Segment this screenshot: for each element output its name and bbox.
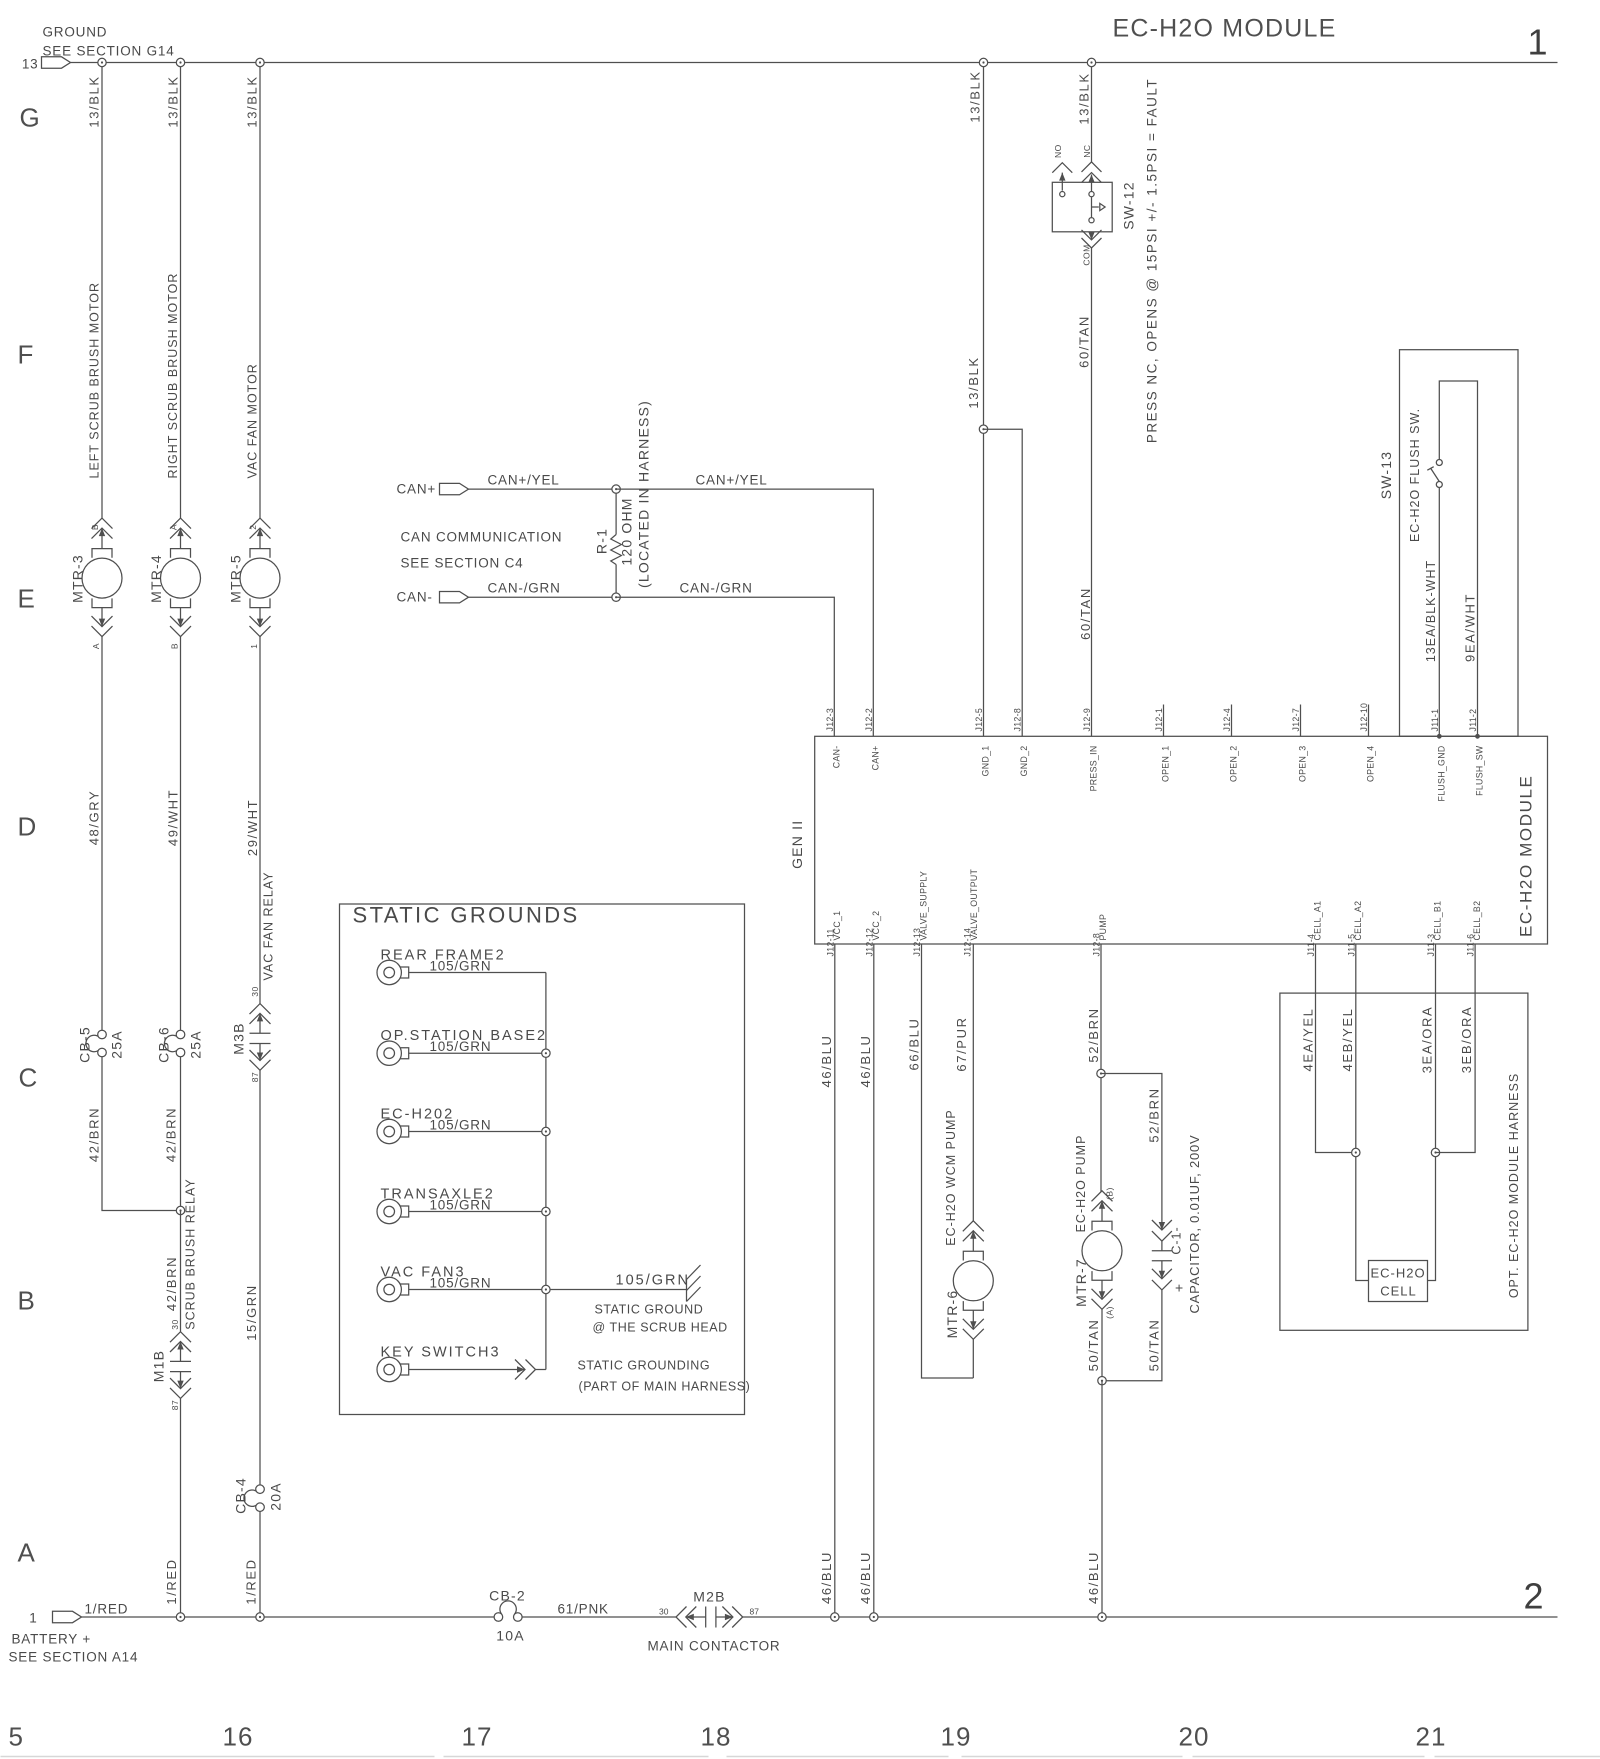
relay contact M3B vac fan relay: [250, 1004, 271, 1071]
svg-text:25A: 25A: [188, 1030, 204, 1059]
svg-text:SW-13: SW-13: [1378, 451, 1394, 500]
svg-text:2: 2: [1524, 1576, 1544, 1617]
svg-text:SW-12: SW-12: [1121, 181, 1137, 230]
svg-text:1: 1: [249, 643, 259, 648]
pin J12-12 VCC_2: [864, 911, 881, 957]
wire 67/PUR J12-14 to MTR-6: [972, 944, 974, 1221]
svg-text:CELL_B1: CELL_B1: [1433, 901, 1443, 941]
svg-text:13EA/BLK-WHT: 13EA/BLK-WHT: [1424, 560, 1438, 662]
svg-text:5: 5: [9, 1722, 24, 1752]
connector CAN+: [440, 483, 469, 494]
svg-text:R-1: R-1: [594, 528, 610, 554]
label STATIC GROUND @ THE SCRUB HEAD: [593, 1303, 728, 1335]
wire 15/GRN M3B to CB-4: [259, 1070, 261, 1484]
svg-text:67/PUR: 67/PUR: [954, 1016, 969, 1071]
wire 42/BRN CB-6 to junction: [180, 1057, 182, 1211]
svg-text:61/PNK: 61/PNK: [558, 1602, 609, 1617]
svg-text:EC-H2O PUMP: EC-H2O PUMP: [1074, 1135, 1088, 1233]
svg-text:87: 87: [750, 1607, 760, 1617]
junction capacitor branch top: [1097, 1069, 1105, 1077]
wire 4EA/YEL J11-4: [1316, 944, 1356, 1153]
svg-text:STATIC GROUNDING: STATIC GROUNDING: [578, 1359, 711, 1373]
junction capacitor branch bottom: [1098, 1377, 1106, 1385]
svg-text:J11-1: J11-1: [1430, 709, 1440, 732]
connector 1 battery feed: [29, 1611, 81, 1626]
svg-text:13/BLK: 13/BLK: [245, 75, 260, 127]
svg-text:NO: NO: [1053, 144, 1063, 158]
ring terminal KEY SWITCH3: [377, 1357, 409, 1381]
svg-text:J12-9: J12-9: [1082, 708, 1092, 732]
wire 105/GRN: [409, 1211, 546, 1213]
svg-text:SEE SECTION G14: SEE SECTION G14: [43, 44, 175, 59]
svg-text:3EA/ORA: 3EA/ORA: [1420, 1006, 1435, 1074]
junction top rail 13/BLK SW-12: [1087, 58, 1095, 66]
wire 105/GRN to static ground: [409, 1289, 687, 1291]
svg-text:@ THE SCRUB HEAD: @ THE SCRUB HEAD: [593, 1321, 728, 1335]
connector CAN-: [440, 592, 469, 603]
wire 13/BLK to MTR-4: [180, 63, 182, 519]
wire CAN+/YEL R-1 to J12-2: [616, 489, 873, 736]
junction R-1 bottom: [612, 593, 620, 601]
svg-text:A: A: [169, 524, 179, 530]
svg-text:9EA/WHT: 9EA/WHT: [1462, 593, 1477, 662]
relay contact M1B scrub brush relay: [170, 1332, 191, 1399]
svg-text:COM: COM: [1082, 244, 1092, 265]
motor MTR-3 left scrub brush: [82, 518, 122, 649]
junction bus VAC FAN3: [542, 1285, 550, 1293]
svg-text:OPEN_2: OPEN_2: [1229, 746, 1239, 783]
pin J12-3 CAN-: [825, 708, 842, 768]
ring terminal TRANSAXLE2: [377, 1199, 409, 1223]
svg-text:J12-8: J12-8: [1013, 708, 1023, 732]
svg-text:CB-6: CB-6: [156, 1026, 172, 1063]
svg-text:MTR-5: MTR-5: [228, 554, 244, 603]
pin J12-14 VALVE_OUTPUT: [963, 868, 980, 956]
svg-text:66/BLU: 66/BLU: [906, 1018, 921, 1071]
svg-text:13/BLK: 13/BLK: [87, 75, 102, 127]
wire CAN-/GRN to R-1: [469, 596, 617, 598]
wire MTR-7 to junction: [1101, 1309, 1103, 1381]
svg-text:CB-5: CB-5: [77, 1026, 93, 1063]
resistor R-1 120 OHM: [611, 489, 622, 597]
svg-text:2: 2: [248, 524, 258, 529]
svg-text:J12-3: J12-3: [825, 708, 835, 732]
svg-text:(PART OF MAIN HARNESS): (PART OF MAIN HARNESS): [579, 1380, 751, 1394]
pin J12-10 OPEN_4: [1359, 703, 1376, 782]
motor MTR-6 EC-H2O WCM pump: [953, 1221, 993, 1340]
switch box SW-13: [1400, 350, 1519, 737]
junction R-1 top: [612, 485, 620, 493]
pin J12-1 OPEN_1: [1154, 705, 1171, 783]
svg-text:50/TAN: 50/TAN: [1086, 1319, 1101, 1372]
svg-text:13/BLK: 13/BLK: [968, 70, 983, 122]
svg-text:GND_1: GND_1: [981, 746, 991, 777]
junction top rail MTR-4: [176, 58, 184, 66]
svg-text:M2B: M2B: [693, 1589, 725, 1605]
svg-text:30: 30: [170, 1319, 180, 1329]
ring terminal VAC FAN3: [377, 1277, 409, 1301]
svg-text:J12-4: J12-4: [1222, 708, 1232, 732]
svg-text:30: 30: [250, 986, 260, 996]
junction battery rail M1B: [176, 1613, 184, 1621]
svg-text:E: E: [18, 584, 36, 614]
wire 1/RED CB-4 to battery rail: [259, 1512, 261, 1617]
svg-text:J11-2: J11-2: [1468, 709, 1478, 732]
wire 66/BLU J12-13 valve supply: [922, 944, 974, 1378]
junction top rail 13/BLK: [979, 58, 987, 66]
wire 46/BLU J12-11 to battery rail: [834, 944, 836, 1617]
svg-text:C: C: [19, 1063, 39, 1093]
junction pin J11-2: [1475, 734, 1480, 739]
pin J12-8 PUMP: [1092, 914, 1109, 957]
wire 42/BRN CB-5 to merge: [102, 1057, 181, 1211]
svg-text:(A): (A): [1104, 1306, 1114, 1319]
svg-text:16: 16: [223, 1722, 254, 1752]
svg-text:J12-10: J12-10: [1359, 703, 1369, 732]
svg-text:J12-2: J12-2: [864, 708, 874, 732]
svg-text:50/TAN: 50/TAN: [1147, 1319, 1162, 1372]
svg-text:13/BLK: 13/BLK: [1077, 72, 1092, 124]
junction battery rail J12-12: [870, 1613, 878, 1621]
svg-text:GND_2: GND_2: [1019, 746, 1029, 777]
svg-text:CELL: CELL: [1380, 1284, 1417, 1299]
svg-text:G: G: [20, 103, 41, 133]
svg-text:FLUSH_GND: FLUSH_GND: [1436, 746, 1446, 802]
pin J12-8 GND_2: [1013, 708, 1029, 776]
svg-text:C-1-: C-1-: [1170, 1226, 1184, 1254]
svg-text:LEFT SCRUB BRUSH MOTOR: LEFT SCRUB BRUSH MOTOR: [88, 282, 102, 479]
svg-text:46/BLU: 46/BLU: [819, 1551, 834, 1604]
wire CAN-/GRN R-1 to J12-3: [616, 597, 834, 736]
wire battery rail 1/RED: [82, 1616, 495, 1618]
pin J12-4 OPEN_2: [1222, 705, 1239, 783]
wire 52/BRN J12-8 pump to MTR-7: [1100, 944, 1102, 1192]
label GROUND / SEE SECTION G14: [43, 25, 175, 59]
svg-text:D: D: [18, 812, 38, 842]
wire 60/TAN SW-12 COM to J12-9: [1091, 248, 1093, 736]
junction pin J11-1: [1437, 734, 1442, 739]
pin J11-1 FLUSH_GND: [1430, 709, 1447, 802]
svg-text:4EB/YEL: 4EB/YEL: [1340, 1008, 1355, 1072]
svg-text:VAC FAN RELAY: VAC FAN RELAY: [262, 871, 276, 980]
svg-text:29/WHT: 29/WHT: [245, 799, 260, 856]
svg-text:60/TAN: 60/TAN: [1077, 315, 1092, 368]
motor MTR-7 EC-H2O pump: [1082, 1191, 1122, 1310]
svg-text:GEN II: GEN II: [789, 820, 805, 869]
label BATTERY + / SEE SECTION A14: [9, 1632, 139, 1665]
wire battery rail M2B to right end: [743, 1616, 1558, 1618]
svg-text:MAIN CONTACTOR: MAIN CONTACTOR: [648, 1639, 781, 1654]
svg-text:BATTERY +: BATTERY +: [12, 1632, 92, 1647]
ring terminal OP.STATION BASE2: [377, 1041, 409, 1065]
harness box OPT. EC-H2O MODULE HARNESS: [1280, 993, 1528, 1330]
svg-text:B: B: [170, 643, 180, 649]
pin J11-4 CELL_A1: [1306, 901, 1323, 957]
svg-text:105/GRN: 105/GRN: [430, 1118, 492, 1133]
svg-text:30: 30: [659, 1607, 669, 1617]
svg-text:STATIC GROUNDS: STATIC GROUNDS: [353, 903, 580, 928]
svg-text:42/BRN: 42/BRN: [164, 1256, 179, 1311]
wire 13EA/BLK-WHT to J11-1: [1438, 488, 1440, 737]
ground chassis static ground: [687, 1265, 701, 1302]
pin J11-6 CELL_B2: [1466, 901, 1483, 957]
svg-text:EC-H2O: EC-H2O: [1370, 1266, 1425, 1281]
ring terminal EC-H202: [377, 1119, 409, 1143]
svg-text:46/BLU: 46/BLU: [858, 1551, 873, 1604]
svg-text:13/BLK: 13/BLK: [966, 356, 981, 408]
wire top ground rail 13/BLK: [71, 62, 1558, 64]
svg-text:CAPACITOR, 0.01UF, 200V: CAPACITOR, 0.01UF, 200V: [1187, 1134, 1202, 1313]
svg-text:MTR-3: MTR-3: [70, 554, 86, 603]
svg-text:1/RED: 1/RED: [164, 1558, 179, 1604]
junction cell A: [1352, 1148, 1360, 1156]
svg-text:SEE SECTION A14: SEE SECTION A14: [9, 1650, 139, 1665]
svg-text:3EB/ORA: 3EB/ORA: [1459, 1006, 1474, 1074]
wire 3EA/ORA J11-3 to cell: [1428, 944, 1436, 1281]
svg-text:VAC FAN MOTOR: VAC FAN MOTOR: [246, 363, 260, 478]
svg-text:(B): (B): [1104, 1187, 1114, 1200]
wire 13/BLK rail to GND_1 junction: [983, 63, 985, 737]
wire 46/BLU J12-12 to battery rail: [873, 944, 875, 1617]
contactor M2B main contactor: [676, 1607, 743, 1628]
svg-text:1: 1: [1528, 22, 1548, 63]
svg-text:OPEN_4: OPEN_4: [1366, 746, 1376, 783]
svg-text:18: 18: [701, 1722, 732, 1752]
svg-text:CAN-: CAN-: [831, 746, 841, 769]
svg-text:F: F: [18, 340, 35, 370]
svg-text:MTR-4: MTR-4: [148, 554, 164, 603]
wire 13/BLK to MTR-3: [101, 63, 103, 519]
pin J11-5 CELL_A2: [1346, 901, 1363, 957]
svg-text:20: 20: [1179, 1722, 1210, 1752]
junction bus OP.STATION BASE2: [542, 1049, 550, 1057]
svg-text:MTR-7: MTR-7: [1073, 1258, 1089, 1307]
static grounds box: [340, 904, 745, 1415]
svg-text:120 OHM: 120 OHM: [619, 497, 635, 565]
svg-text:13: 13: [22, 57, 39, 72]
junction battery rail CB-4: [256, 1613, 264, 1621]
svg-text:21: 21: [1416, 1722, 1447, 1752]
svg-text:87: 87: [250, 1072, 260, 1082]
wire 3EB/ORA J11-6: [1436, 944, 1476, 1153]
ring terminal REAR FRAME2: [377, 960, 409, 984]
svg-text:J12-5: J12-5: [974, 708, 984, 732]
label STATIC GROUNDING (PART OF MAIN HARNESS): [578, 1359, 751, 1394]
svg-text:CAN COMMUNICATION: CAN COMMUNICATION: [401, 530, 563, 545]
svg-text:MTR-6: MTR-6: [944, 1290, 960, 1339]
svg-text:49/WHT: 49/WHT: [166, 789, 181, 846]
svg-text:CAN+/YEL: CAN+/YEL: [488, 473, 560, 488]
junction top rail MTR-3: [98, 58, 106, 66]
svg-text:87: 87: [170, 1400, 180, 1410]
wire C-1 to junction: [1102, 1290, 1162, 1381]
junction battery rail pump: [1098, 1613, 1106, 1621]
wire 13/BLK to MTR-5: [259, 63, 261, 519]
wire 42/BRN junction to M1B: [180, 1211, 182, 1332]
svg-text:52/BRN: 52/BRN: [1147, 1087, 1162, 1142]
svg-text:15/GRN: 15/GRN: [244, 1284, 259, 1341]
svg-text:A: A: [91, 643, 101, 649]
wire 105/GRN: [409, 972, 546, 974]
wire key switch to bus with connector: [409, 1360, 546, 1380]
svg-text:CAN+/YEL: CAN+/YEL: [696, 473, 768, 488]
svg-text:42/BRN: 42/BRN: [87, 1107, 102, 1162]
svg-text:VALVE_OUTPUT: VALVE_OUTPUT: [969, 868, 979, 940]
svg-text:25A: 25A: [109, 1030, 125, 1059]
pin J12-7 OPEN_3: [1291, 705, 1308, 783]
svg-text:EC-H2O MODULE: EC-H2O MODULE: [1113, 15, 1337, 43]
circuit breaker CB-6 25A: [164, 1030, 184, 1057]
svg-text:CELL_A2: CELL_A2: [1353, 901, 1363, 941]
svg-text:46/BLU: 46/BLU: [819, 1035, 834, 1088]
pin J12-5 GND_1: [974, 708, 991, 776]
svg-text:OPEN_3: OPEN_3: [1298, 746, 1308, 783]
svg-text:60/TAN: 60/TAN: [1078, 587, 1093, 640]
wire 52/BRN branch to C-1: [1101, 1074, 1162, 1231]
svg-text:4EA/YEL: 4EA/YEL: [1301, 1008, 1316, 1072]
svg-text:FLUSH_SW: FLUSH_SW: [1475, 745, 1485, 796]
svg-text:NC: NC: [1082, 144, 1092, 157]
svg-text:EC-H2O MODULE: EC-H2O MODULE: [1517, 775, 1536, 938]
svg-text:42/BRN: 42/BRN: [164, 1107, 179, 1162]
pin J12-11 VCC_1: [825, 911, 842, 957]
svg-text:13/BLK: 13/BLK: [166, 75, 181, 127]
connector 13 ground feed: [22, 57, 71, 72]
svg-text:RIGHT SCRUB BRUSH MOTOR: RIGHT SCRUB BRUSH MOTOR: [166, 273, 180, 479]
svg-text:J12-7: J12-7: [1291, 708, 1301, 732]
junction bus TRANSAXLE2: [542, 1207, 550, 1215]
svg-text:20A: 20A: [268, 1482, 284, 1511]
svg-text:OPEN_1: OPEN_1: [1161, 746, 1171, 783]
svg-text:SCRUB BRUSH RELAY: SCRUB BRUSH RELAY: [184, 1178, 198, 1330]
switch SW-13 contacts: [1427, 460, 1442, 488]
svg-text:CELL_B2: CELL_B2: [1472, 901, 1482, 941]
wire 61/PNK CB-2 to M2B: [522, 1616, 676, 1618]
svg-text:EC-H2O FLUSH SW.: EC-H2O FLUSH SW.: [1408, 408, 1422, 542]
wire 29/WHT MTR-5 to M3B: [259, 637, 261, 1004]
circuit breaker CB-4 20A: [244, 1485, 264, 1512]
svg-text:105/GRN: 105/GRN: [430, 1276, 492, 1291]
svg-text:CB-2: CB-2: [489, 1588, 526, 1604]
wire 13/BLK branch to J12-8 GND_2: [984, 429, 1023, 736]
wire SW-13 loop: [1439, 381, 1477, 736]
wire 48/GRY MTR-3 to CB-5: [101, 637, 103, 1032]
svg-text:52/BRN: 52/BRN: [1086, 1007, 1101, 1062]
wire 105/GRN: [409, 1052, 546, 1054]
svg-text:105/GRN: 105/GRN: [430, 1198, 492, 1213]
capacitor C-1 0.01UF 200V: [1152, 1220, 1172, 1290]
pin J12-13 VALVE_SUPPLY: [912, 871, 929, 957]
svg-text:CELL_A1: CELL_A1: [1313, 901, 1323, 941]
svg-text:J12-1: J12-1: [1154, 708, 1164, 732]
circuit breaker CB-5 25A: [86, 1030, 106, 1057]
svg-text:VCC_2: VCC_2: [871, 911, 881, 941]
svg-text:1/RED: 1/RED: [244, 1558, 259, 1604]
pressure switch SW-12: [1052, 162, 1112, 248]
svg-text:B: B: [18, 1286, 36, 1316]
junction cell B: [1431, 1148, 1439, 1156]
svg-text:PRESS_IN: PRESS_IN: [1089, 746, 1099, 792]
wire 1/RED M1B to battery rail: [180, 1398, 182, 1617]
wire 49/WHT MTR-4 to CB-6: [180, 637, 182, 1032]
pin J11-3 CELL_B1: [1426, 901, 1443, 957]
svg-text:EC-H2O WCM PUMP: EC-H2O WCM PUMP: [944, 1109, 958, 1246]
svg-text:B: B: [90, 524, 100, 530]
svg-text:1: 1: [29, 1611, 37, 1626]
circuit breaker CB-2 10A: [494, 1601, 522, 1621]
pin J11-2 FLUSH_SW: [1468, 709, 1485, 796]
svg-text:M3B: M3B: [231, 1022, 247, 1054]
svg-text:(LOCATED IN HARNESS): (LOCATED IN HARNESS): [636, 400, 652, 588]
wire 46/BLU MTR-7 to battery rail: [1101, 1381, 1103, 1617]
svg-text:GROUND: GROUND: [43, 25, 108, 40]
svg-text:CAN+: CAN+: [870, 746, 880, 771]
wire static ground bus: [545, 973, 547, 1370]
wire 105/GRN: [409, 1131, 546, 1133]
svg-text:VCC_1: VCC_1: [832, 911, 842, 941]
svg-text:105/GRN: 105/GRN: [430, 959, 492, 974]
svg-text:CAN-: CAN-: [397, 590, 433, 605]
junction 42/BRN merge: [176, 1206, 184, 1214]
pin J12-2 CAN+: [864, 708, 881, 770]
svg-text:VALVE_SUPPLY: VALVE_SUPPLY: [919, 871, 929, 941]
svg-text:46/BLU: 46/BLU: [858, 1035, 873, 1088]
svg-text:CB-4: CB-4: [233, 1477, 249, 1514]
svg-text:PUMP: PUMP: [1098, 914, 1108, 941]
svg-text:105/GRN: 105/GRN: [430, 1039, 492, 1054]
wire MTR-6 to valve supply loop: [972, 1339, 974, 1378]
svg-text:SEE SECTION C4: SEE SECTION C4: [401, 556, 524, 571]
wire 4EB/YEL J11-5 to cell: [1356, 944, 1369, 1281]
svg-text:M1B: M1B: [151, 1350, 167, 1382]
wire CAN+/YEL to R-1: [469, 488, 617, 490]
motor MTR-4 right scrub brush: [161, 518, 201, 649]
motor MTR-5 vac fan: [240, 518, 280, 649]
svg-text:48/GRY: 48/GRY: [87, 790, 102, 846]
junction 13/BLK branch: [979, 425, 987, 433]
svg-text:CAN+: CAN+: [397, 482, 437, 497]
svg-text:KEY SWITCH3: KEY SWITCH3: [381, 1345, 501, 1361]
svg-text:OPT. EC-H2O MODULE HARNESS: OPT. EC-H2O MODULE HARNESS: [1507, 1073, 1521, 1298]
bottom border line: [1, 1756, 1600, 1758]
junction top rail MTR-5: [256, 58, 264, 66]
junction bus EC-H202: [542, 1127, 550, 1135]
svg-text:46/BLU: 46/BLU: [1086, 1551, 1101, 1604]
svg-text:17: 17: [462, 1722, 493, 1752]
svg-text:STATIC GROUND: STATIC GROUND: [595, 1303, 704, 1317]
junction battery rail J12-11: [831, 1613, 839, 1621]
svg-text:105/GRN: 105/GRN: [616, 1273, 690, 1289]
wire 13/BLK rail to SW-12: [1091, 63, 1093, 162]
label CAN COMMUNICATION / SEE SECTION C4: [401, 530, 563, 571]
cell box EC-H2O CELL: [1369, 1261, 1428, 1302]
svg-text:CAN-/GRN: CAN-/GRN: [680, 581, 753, 596]
svg-text:10A: 10A: [496, 1628, 525, 1644]
svg-text:1/RED: 1/RED: [85, 1602, 129, 1617]
svg-text:CAN-/GRN: CAN-/GRN: [488, 581, 561, 596]
svg-text:+: +: [1175, 1280, 1184, 1296]
svg-text:A: A: [18, 1538, 36, 1568]
svg-text:PRESS NC, OPENS @ 15PSI +/- 1.: PRESS NC, OPENS @ 15PSI +/- 1.5PSI = FAU…: [1145, 78, 1160, 443]
pin J12-9 PRESS_IN: [1082, 708, 1099, 791]
svg-text:19: 19: [941, 1722, 972, 1752]
module box GEN II EC-H2O MODULE: [815, 736, 1548, 944]
